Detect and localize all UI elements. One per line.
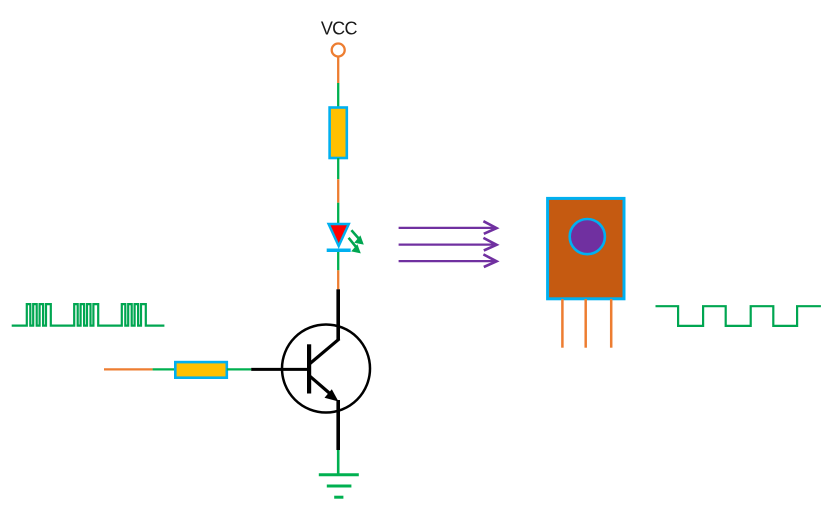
wire R2 to Q1 base (black segment) [251, 368, 307, 371]
LED D1 anode triangle [329, 224, 349, 246]
wire R1 to LED (orange segment) [337, 179, 339, 203]
wire LED to Q1 collector (green segment) [337, 252, 339, 270]
ground symbol [319, 475, 359, 497]
resistor R2 (base resistor) [175, 362, 227, 378]
LED D1 cathode bar [327, 248, 351, 252]
wire R1 to LED (green segment 2) [337, 203, 339, 223]
wire input to R2 (green segment) [153, 368, 176, 370]
LED emission arrow 2 [349, 238, 361, 254]
IR receiver lens [570, 219, 605, 254]
transistor Q1 body circle [282, 325, 370, 413]
transistor Q1 emitter diagonal [310, 376, 331, 394]
transistor Q1 emitter arrowhead [325, 389, 339, 401]
transistor Q1 base bar [307, 344, 311, 393]
IR receiver module body [548, 198, 624, 298]
wire LED to Q1 collector (black segment) [336, 289, 340, 340]
wire input to R2 (orange segment) [104, 368, 153, 370]
receiver leg 1 [561, 299, 564, 348]
output square waveform [656, 306, 821, 326]
wire VCC terminal to R1 (orange segment) [337, 56, 339, 83]
IR beam arrow 2 [399, 238, 497, 251]
wire R1 to LED (green segment) [337, 158, 339, 179]
svg-text:VCC: VCC [321, 18, 358, 38]
wire LED to Q1 collector (orange segment) [337, 270, 339, 289]
receiver leg 3 [610, 299, 613, 348]
wire R2 to Q1 base (green segment) [227, 368, 251, 370]
LED emission arrow 1 [351, 230, 363, 244]
input pulse waveform (modulated signal) [12, 304, 165, 326]
VCC terminal circle [332, 44, 345, 57]
resistor R1 (collector load) [330, 108, 347, 159]
transistor Q1 collector diagonal [310, 339, 339, 364]
IR beam arrow 3 [399, 254, 497, 267]
wire emitter to ground (green segment) [337, 450, 340, 474]
receiver leg 2 [584, 299, 587, 348]
IR beam arrow 1 [399, 221, 497, 234]
wire to R1 (green segment) [337, 83, 339, 108]
wire Q1 emitter (black segment) [336, 400, 340, 450]
